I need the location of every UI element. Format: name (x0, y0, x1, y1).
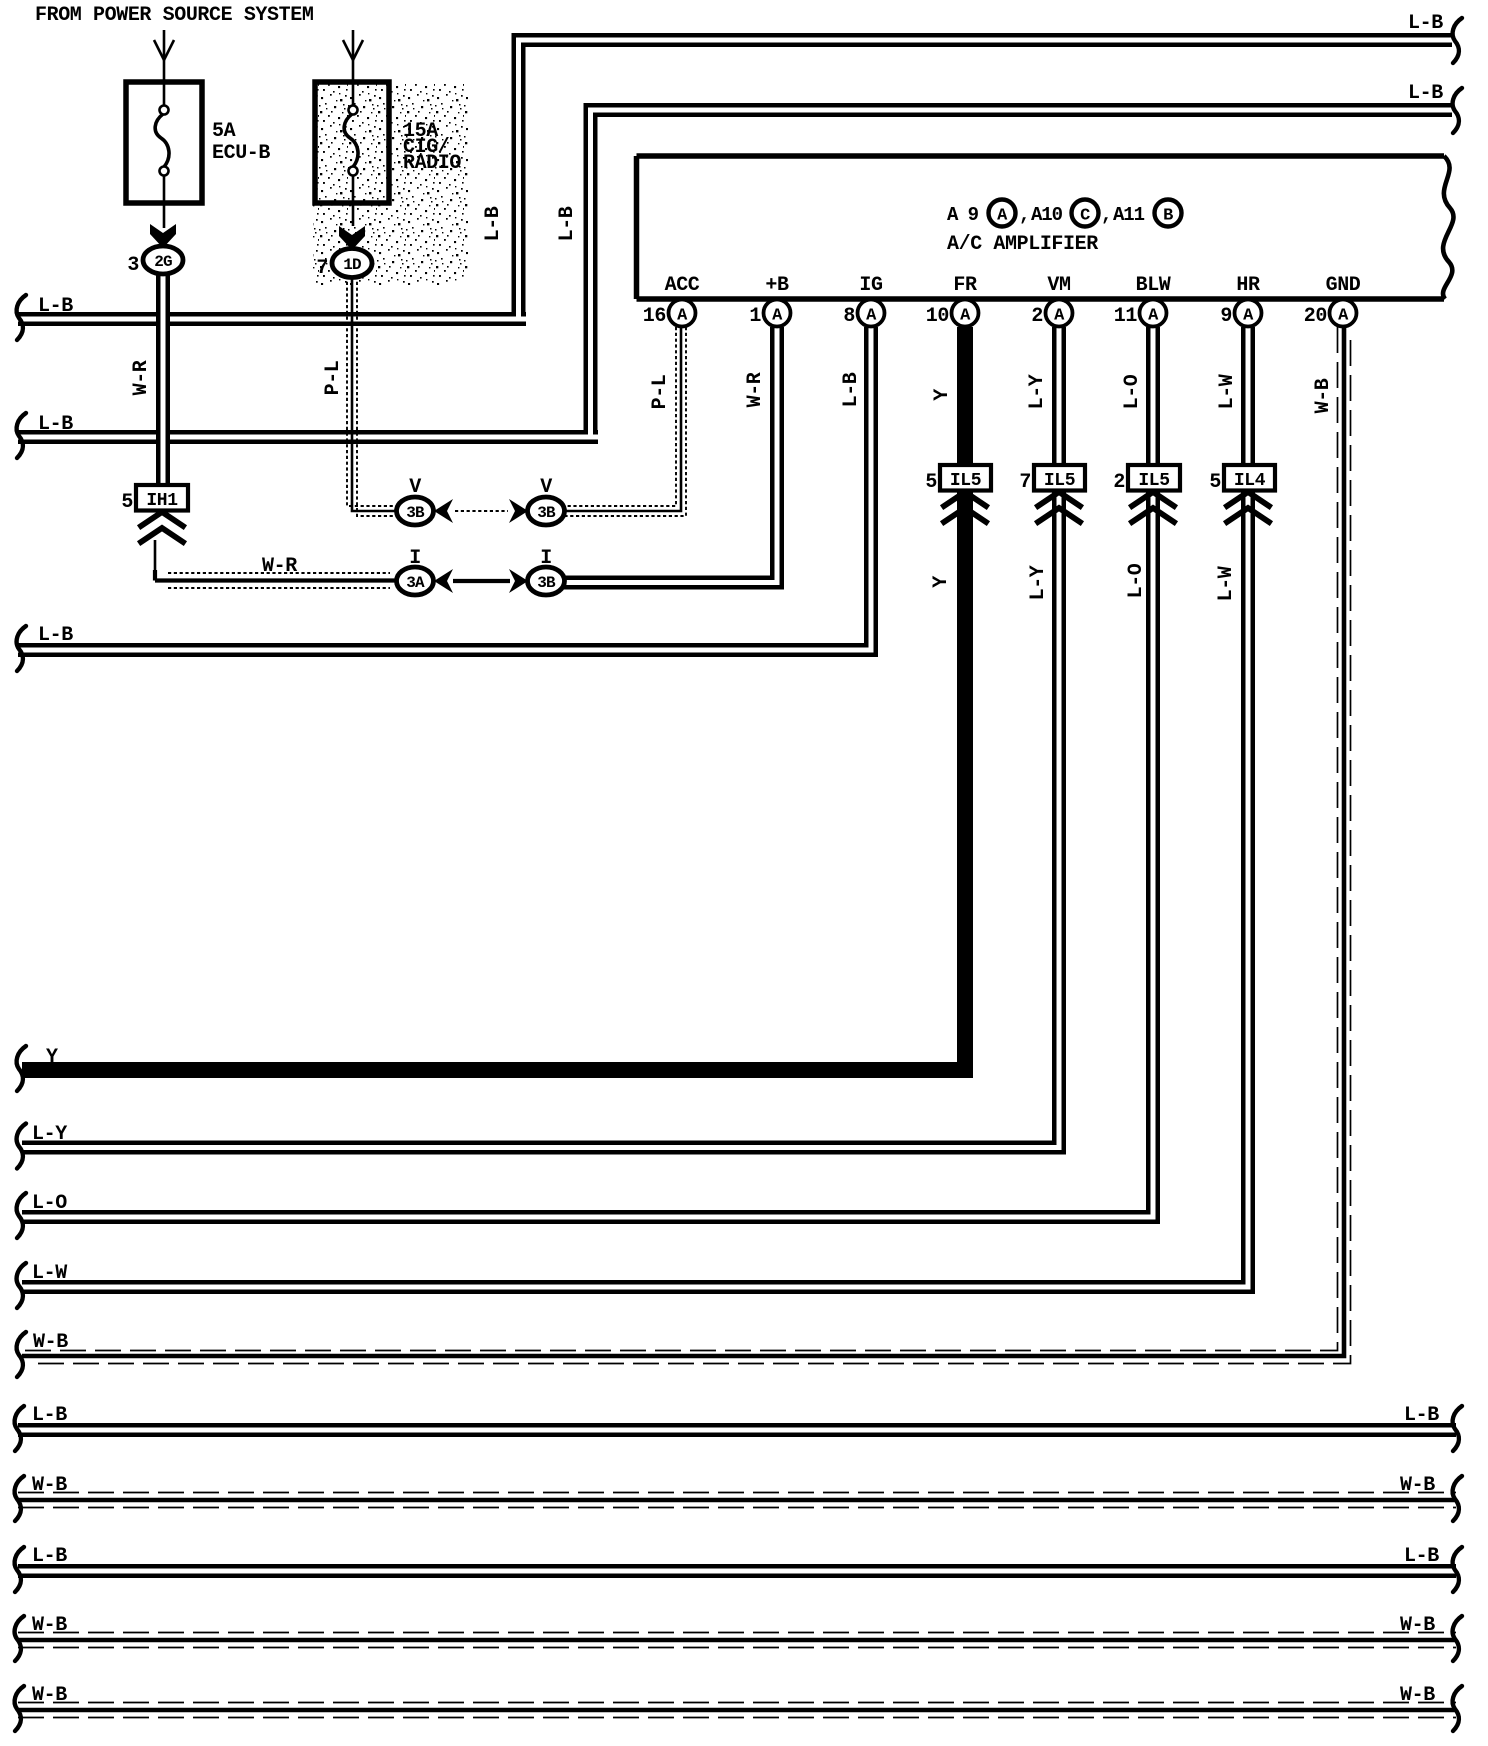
svg-text:L-Y: L-Y (1027, 565, 1050, 600)
svg-text:L-B: L-B (1404, 1404, 1439, 1427)
fuse 5A ECU-B (126, 82, 270, 203)
svg-text:W-B: W-B (32, 1474, 67, 1497)
svg-text:W-B: W-B (1312, 378, 1335, 413)
stipple shading around CIG/RADIO fuse (313, 83, 468, 281)
connector IL4 pin 5 (HR) (1209, 465, 1275, 494)
power feed arrow 2 (343, 30, 363, 84)
svg-text:A: A (677, 307, 688, 326)
svg-text:A11: A11 (1113, 204, 1145, 226)
svg-text:FR: FR (953, 274, 977, 297)
svg-text:16: 16 (643, 305, 666, 328)
svg-text:1D: 1D (343, 256, 361, 274)
pin HR 9 A (1220, 274, 1261, 328)
svg-text:B: B (1163, 207, 1173, 226)
svg-text:L-W: L-W (1215, 566, 1238, 601)
svg-text:A: A (1243, 307, 1254, 326)
svg-text:VM: VM (1047, 274, 1071, 297)
chevron under IL5 (VM) (1038, 492, 1080, 522)
svg-text:5A: 5A (212, 120, 236, 143)
svg-text:A: A (997, 207, 1008, 226)
connector IL5 pin 7 (VM) (1019, 465, 1085, 494)
svg-text:Y: Y (931, 389, 954, 401)
svg-text:W-B: W-B (32, 1684, 67, 1707)
svg-text:2: 2 (1113, 471, 1125, 494)
arrow into connector 1D (339, 226, 365, 250)
continuation mark top 1 (1453, 18, 1462, 63)
pin GND 20 A (1304, 274, 1361, 328)
wire L-W from pin HR (22, 327, 1248, 1287)
wire L-B bottom 3 (18, 1545, 1456, 1571)
connector IL5 pin 2 (BLW) (1113, 465, 1180, 494)
wire L-B row 1 (18, 295, 526, 319)
wire L-B top 2 (556, 82, 1452, 437)
svg-text:IL5: IL5 (1138, 471, 1169, 491)
wire Y from pin FR (22, 327, 965, 1070)
svg-text:9: 9 (1220, 305, 1232, 328)
svg-text:7: 7 (1019, 471, 1031, 494)
svg-text:FROM POWER SOURCE SYSTEM: FROM POWER SOURCE SYSTEM (35, 4, 314, 27)
connector IL5 pin 5 (FR) (925, 465, 991, 494)
svg-text:3B: 3B (537, 574, 556, 592)
wire W-B bottom 4 (18, 1614, 1456, 1648)
junction connector 3B (I row right) (528, 547, 565, 595)
svg-text:11: 11 (1114, 305, 1138, 328)
wire P-L from pin ACC (564, 327, 686, 516)
continuation mark L-O (17, 1193, 26, 1238)
fuse 15A CIG/RADIO (315, 82, 461, 226)
wire W-B bottom 2 (18, 1474, 1456, 1508)
svg-text:GND: GND (1326, 274, 1361, 297)
wire W-R from pin +B (563, 327, 777, 583)
connector IH1 pin 5 (121, 485, 188, 514)
connector 1D pin 7 (316, 249, 372, 281)
svg-text:L-B: L-B (1408, 12, 1443, 35)
svg-text:A: A (1338, 307, 1349, 326)
svg-text:A/C AMPLIFIER: A/C AMPLIFIER (947, 233, 1098, 256)
svg-text:W-R: W-R (744, 372, 767, 407)
svg-text:L-Y: L-Y (1026, 374, 1049, 409)
pin FR 10 A (926, 274, 979, 328)
svg-text:L-B: L-B (556, 206, 579, 241)
pin IG 8 A (843, 274, 884, 328)
continuation mark Y (17, 1046, 26, 1091)
svg-text:2G: 2G (154, 253, 172, 271)
svg-text:V: V (540, 476, 552, 499)
svg-text:A: A (866, 307, 877, 326)
svg-text:I: I (540, 547, 552, 570)
svg-text:P-L: P-L (322, 361, 345, 396)
chevron under IL4 (HR) (1227, 492, 1269, 522)
wire L-B top 1 (482, 12, 1452, 319)
junction connector 3B (V row left) (397, 476, 434, 525)
wire W-R from connector IH1 to junction 3A (155, 540, 397, 588)
svg-text:3: 3 (127, 254, 139, 277)
svg-text:5: 5 (121, 491, 133, 514)
svg-text:BLW: BLW (1136, 274, 1171, 297)
svg-text:2: 2 (1031, 305, 1043, 328)
wire W-B bottom 5 (18, 1684, 1456, 1718)
svg-text:W-B: W-B (1400, 1614, 1435, 1637)
continuation mark row 3 (17, 626, 26, 671)
continuation mark L-W (17, 1263, 26, 1308)
svg-text:5: 5 (1209, 471, 1221, 494)
junction connector 3B (V row right) (528, 476, 565, 525)
continuation mark W-B (17, 1332, 26, 1377)
svg-text:A: A (960, 307, 971, 326)
svg-text:IL5: IL5 (1044, 471, 1075, 491)
svg-text:V: V (409, 476, 421, 499)
continuation marks bottom 4 (15, 1616, 24, 1661)
continuation marks bottom 1 (15, 1406, 24, 1451)
continuation marks bottom 5 (15, 1686, 24, 1731)
svg-text:3A: 3A (406, 574, 425, 592)
junction connector 3A (I row left) (397, 547, 434, 595)
svg-text:W-B: W-B (1400, 1474, 1435, 1497)
pin BLW 11 A (1114, 274, 1171, 328)
junction I row: solid link (434, 569, 528, 593)
svg-text:8: 8 (843, 305, 855, 328)
svg-text:L-O: L-O (1125, 563, 1148, 598)
svg-text:A: A (1148, 307, 1159, 326)
wire W-B from pin GND (22, 327, 1351, 1364)
wire L-B bottom 1 (18, 1404, 1456, 1430)
chevron under IL5 (BLW) (1132, 492, 1174, 522)
svg-text:IG: IG (859, 274, 883, 297)
svg-text:5: 5 (925, 471, 937, 494)
svg-text:W-B: W-B (32, 1614, 67, 1637)
svg-text:L-Y: L-Y (32, 1123, 67, 1146)
svg-text:1: 1 (749, 305, 761, 328)
chevron under IH1 (141, 512, 183, 542)
svg-text:7: 7 (316, 257, 328, 280)
wire L-B from pin IG to row 3 (18, 327, 871, 650)
continuation mark row 2 (17, 413, 26, 458)
svg-text:+B: +B (765, 274, 789, 297)
power feed arrow 1 (154, 30, 174, 84)
svg-text:Y: Y (930, 576, 953, 588)
svg-text:L-B: L-B (38, 295, 73, 318)
wire L-B row 2 (18, 413, 598, 437)
svg-text:IH1: IH1 (146, 491, 178, 511)
continuation mark top 2 (1453, 88, 1462, 133)
svg-text:P-L: P-L (649, 375, 672, 410)
wire W-R from fuse 1 (130, 272, 163, 487)
svg-text:RADIO: RADIO (403, 152, 461, 175)
continuation mark row 1 (17, 295, 26, 340)
svg-text:W-B: W-B (33, 1331, 68, 1354)
connector 2G pin 3 (127, 246, 183, 277)
svg-text:A 9: A 9 (947, 204, 979, 226)
svg-text:3B: 3B (537, 504, 556, 522)
continuation marks bottom 3 (15, 1547, 24, 1592)
svg-text:10: 10 (926, 305, 949, 328)
svg-text:L-B: L-B (482, 206, 505, 241)
pin +B 1 A (749, 274, 790, 328)
continuation mark L-Y (17, 1124, 26, 1169)
svg-text:A10: A10 (1031, 204, 1063, 226)
svg-text:L-B: L-B (840, 372, 863, 407)
svg-text:ACC: ACC (665, 274, 700, 297)
svg-text:L-B: L-B (38, 413, 73, 436)
svg-text:20: 20 (1304, 305, 1327, 328)
svg-text:C: C (1080, 207, 1090, 226)
A/C amplifier box (637, 156, 1454, 299)
svg-text:3B: 3B (406, 504, 425, 522)
svg-text:W-R: W-R (130, 360, 153, 395)
pin VM 2 A (1031, 274, 1072, 328)
wire P-L from fuse 2 (322, 276, 397, 516)
junction V row: dotted link (434, 499, 528, 523)
svg-text:L-B: L-B (32, 1404, 67, 1427)
svg-text:I: I (409, 547, 421, 570)
svg-text:L-B: L-B (38, 624, 73, 647)
pin ACC 16 A (643, 274, 700, 328)
svg-text:HR: HR (1236, 274, 1260, 297)
svg-text:IL4: IL4 (1234, 471, 1266, 491)
svg-text:Y: Y (46, 1046, 58, 1069)
svg-text:L-W: L-W (1216, 374, 1239, 409)
svg-text:ECU-B: ECU-B (212, 142, 270, 165)
svg-text:,: , (1101, 204, 1111, 226)
continuation marks bottom 2 (15, 1476, 24, 1521)
svg-text:W-R: W-R (262, 555, 297, 578)
svg-text:L-O: L-O (32, 1192, 67, 1215)
svg-text:IL5: IL5 (950, 471, 981, 491)
svg-text:L-O: L-O (1121, 374, 1144, 409)
arrow into connector 2G (150, 203, 176, 248)
svg-text:A: A (1054, 307, 1065, 326)
svg-text:L-B: L-B (1408, 82, 1443, 105)
svg-text:W-B: W-B (1400, 1684, 1435, 1707)
wire L-O from pin BLW (22, 327, 1153, 1217)
svg-text:L-W: L-W (32, 1262, 67, 1285)
svg-text:L-B: L-B (32, 1545, 67, 1568)
wire L-Y from pin VM (22, 327, 1059, 1148)
svg-text:L-B: L-B (1404, 1545, 1439, 1568)
svg-text:A: A (772, 307, 783, 326)
chevron under IL5 (FR) (944, 492, 986, 522)
svg-text:,: , (1019, 204, 1029, 226)
